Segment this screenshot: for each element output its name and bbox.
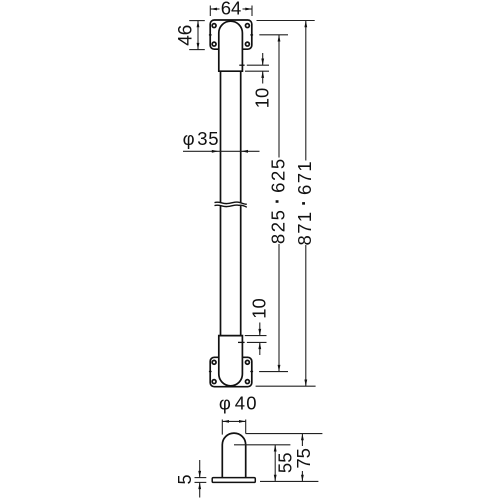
svg-text:10: 10	[249, 298, 270, 319]
top flange side notches	[209, 34, 253, 36]
svg-text:64: 64	[221, 0, 242, 19]
dimension 10 (bottom joint)	[245, 298, 270, 355]
bottom flange screw holes	[212, 360, 249, 383]
svg-text:5: 5	[175, 474, 195, 484]
detail view base plate	[212, 478, 255, 483]
svg-text:10: 10	[252, 88, 273, 109]
bar tube right edge	[240, 71, 242, 335]
svg-text:φ35: φ35	[183, 128, 220, 149]
bottom sleeve joint tick	[238, 341, 245, 343]
top end cap dome	[219, 21, 243, 71]
top flange plate	[210, 20, 252, 49]
dimension phi35 (tube diameter)	[183, 128, 260, 153]
top sleeve joint tick	[239, 64, 244, 66]
dimension 10 (top joint)	[245, 53, 273, 108]
break lines (pipe interruption)	[215, 202, 247, 207]
dimension 75 (detail overall height)	[246, 434, 323, 482]
dimension 871/671 (outer length)	[256, 21, 317, 387]
detail view bracket dome	[222, 433, 245, 478]
svg-text:46: 46	[176, 25, 197, 46]
dimension 5 (plate thickness)	[175, 460, 207, 498]
svg-text:75: 75	[293, 448, 314, 469]
dimension 46 (flange height, left)	[176, 21, 205, 50]
dimension 55 (detail height to axis)	[234, 445, 296, 482]
dimension phi40 (detail width)	[219, 393, 258, 435]
bottom flange plate	[210, 357, 252, 386]
dimension 64 (top width)	[210, 0, 252, 19]
bottom flange side notches	[209, 371, 253, 373]
dimension 825/625 (inner length)	[259, 35, 290, 372]
top flange screw holes	[212, 24, 249, 46]
bar tube left edge	[220, 71, 222, 335]
bottom end cap dome	[219, 336, 243, 386]
svg-text:φ40: φ40	[219, 393, 258, 414]
